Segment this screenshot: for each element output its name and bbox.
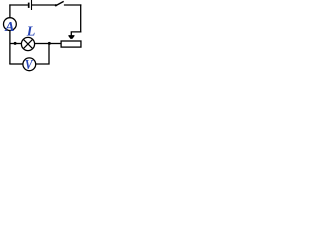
voltmeter V circle <box>23 58 36 71</box>
wire top-left horizontal (battery to corner) <box>9 4 28 6</box>
wire rheostat to node B <box>50 43 61 45</box>
wire lamp to node A <box>10 43 21 45</box>
switch S contact dot <box>55 4 57 6</box>
wire left vertical upper (corner to ammeter) <box>9 4 11 17</box>
wire node B to lamp <box>35 43 49 45</box>
lamp L circle <box>21 37 34 50</box>
battery cell positive plate (long thin) <box>31 0 33 10</box>
wire bottom-left to voltmeter <box>9 63 22 65</box>
svg-text:L: L <box>26 25 36 40</box>
battery cell negative plate (short thick) <box>28 3 30 8</box>
lamp L cross <box>23 39 33 49</box>
ammeter A circle <box>3 18 16 31</box>
wire voltmeter to node B riser <box>36 44 49 64</box>
node A junction dot <box>14 42 17 45</box>
wire left vertical lower (ammeter to bottom corner) <box>9 31 11 64</box>
wire battery to switch <box>32 4 55 6</box>
wire right vertical <box>80 4 82 32</box>
rheostat wiper arrowhead <box>68 35 74 39</box>
switch S blade <box>56 1 63 5</box>
node B junction dot <box>48 42 51 45</box>
wire to rheostat wiper <box>71 32 81 36</box>
wire switch to top-right corner <box>64 4 81 6</box>
rheostat R body box <box>61 41 81 47</box>
